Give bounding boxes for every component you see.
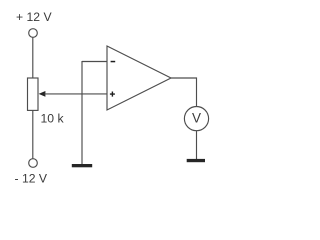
terminal -12 V [29, 159, 38, 168]
inverting input minus sign [111, 61, 116, 63]
svg-text:V: V [192, 110, 201, 125]
terminal +12 V [29, 29, 38, 38]
voltmeter M1 [184, 107, 208, 131]
wire - input down to ground [81, 61, 83, 165]
svg-text:10 k: 10 k [41, 112, 65, 126]
non-inverting input plus sign [110, 92, 115, 97]
ground right [187, 159, 205, 162]
wiper arrow of potentiometer [39, 91, 46, 97]
svg-text:+ 12 V: + 12 V [16, 10, 52, 24]
wire potentiometer bottom to terminal [32, 110, 34, 158]
op-amp U1 [107, 46, 171, 110]
wire terminal to potentiometer top [32, 38, 34, 79]
potentiometer R1 body [28, 78, 39, 110]
ground left [72, 164, 92, 167]
output wire [171, 78, 197, 107]
wire wiper to op-amp + input [45, 93, 108, 95]
wire voltmeter to ground [196, 131, 198, 159]
wire op-amp - input horizontal [82, 61, 107, 63]
svg-text:- 12 V: - 12 V [15, 172, 48, 186]
